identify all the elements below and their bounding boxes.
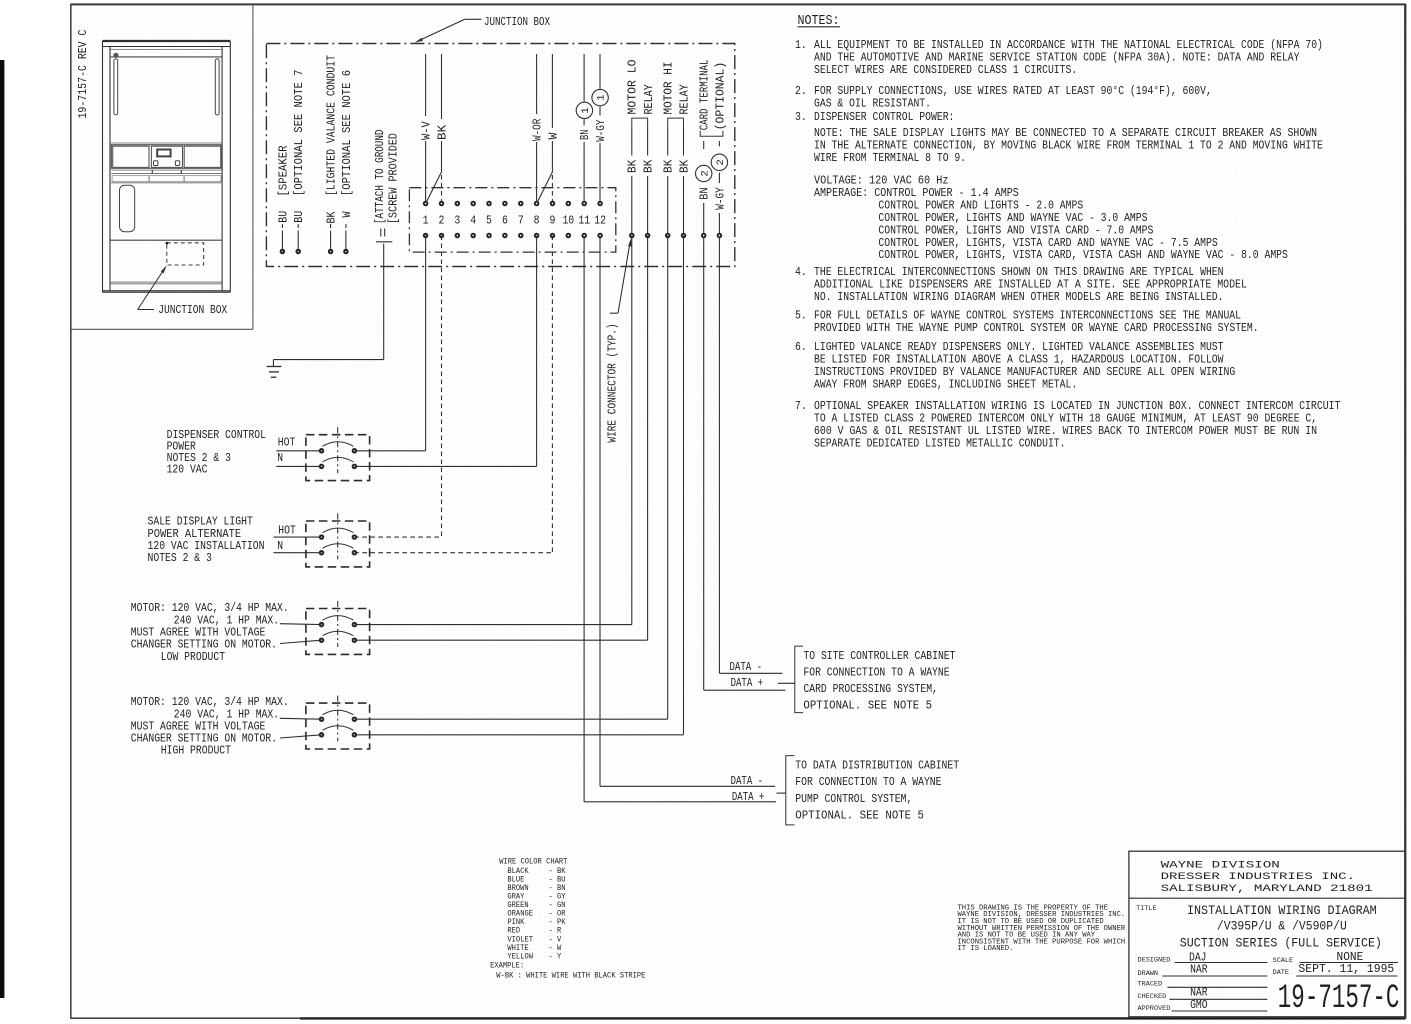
svg-text:2: 2 (699, 170, 711, 176)
S3 top leader (280, 623, 322, 626)
motor hi relay wire BK (2) (683, 125, 685, 155)
wire W diagonal into terminal 8 (537, 172, 552, 202)
svg-text:APPROVED: APPROVED (1138, 1005, 1171, 1013)
svg-text:BN: BN (698, 187, 712, 199)
junction box splice contact 5 (right group) (702, 234, 706, 238)
svg-text:WIRE FROM TERMINAL 8 TO 9.: WIRE FROM TERMINAL 8 TO 9. (814, 151, 966, 165)
earth ground symbol (267, 366, 282, 368)
svg-text:CARD TERMINAL: CARD TERMINAL (698, 60, 712, 131)
wire W-V to terminal 1 (425, 54, 427, 116)
dispenser base lines (110, 281, 222, 283)
dispenser control panel (111, 145, 221, 169)
motor high product switch S4 (306, 703, 370, 749)
svg-text:INSTALLATION WIRING DIAGRAM: INSTALLATION WIRING DIAGRAM (1187, 903, 1377, 918)
terminal strip TB (dash-dot border) (409, 188, 615, 252)
svg-text:DATA -: DATA - (730, 660, 763, 674)
svg-text:DESIGNED: DESIGNED (1138, 957, 1171, 965)
svg-text:6: 6 (502, 213, 508, 227)
terminal 7 bottom contact (519, 234, 523, 238)
dispenser cabinet outline (103, 41, 231, 292)
svg-text:DATE: DATE (1273, 969, 1289, 977)
svg-text:DATA +: DATA + (731, 676, 764, 690)
svg-text:SALISBURY, MARYLAND 21801: SALISBURY, MARYLAND 21801 (1161, 883, 1373, 895)
terminal 5 top contact (487, 202, 491, 206)
dispenser sub-frame panel (252, 5, 254, 330)
svg-text:TITLE: TITLE (1136, 905, 1157, 913)
svg-text:FOR CONNECTION TO A WAYNE: FOR CONNECTION TO A WAYNE (803, 665, 949, 679)
svg-text:BN: BN (578, 130, 592, 141)
junction box splice contact 6 (right group) (718, 234, 722, 238)
svg-text:SCALE: SCALE (1273, 957, 1294, 965)
junction box splice contact 4 (right group) (682, 234, 686, 238)
junction box top leader arrow (465, 18, 482, 20)
svg-text:HOT: HOT (278, 523, 296, 537)
svg-text:[OPTIONAL SEE NOTE 6: [OPTIONAL SEE NOTE 6 (340, 70, 354, 196)
svg-text:W-OR: W-OR (531, 119, 545, 141)
terminal 2 top contact (440, 202, 444, 206)
terminal 11 top contact (582, 202, 586, 206)
svg-text:10: 10 (562, 213, 574, 227)
terminal 6 top contact (503, 202, 507, 206)
svg-text:BK: BK (677, 159, 691, 173)
svg-text:[OPTIONAL SEE NOTE 7: [OPTIONAL SEE NOTE 7 (292, 70, 306, 197)
motor hi relay wire BK (1) (667, 125, 669, 155)
svg-text:[ATTACH TO GROUND: [ATTACH TO GROUND (373, 130, 387, 225)
svg-text:W-GY: W-GY (594, 119, 608, 142)
svg-text:RELAY: RELAY (642, 84, 656, 115)
svg-text:5.: 5. (795, 309, 807, 323)
terminal 11 bottom contact (582, 234, 586, 238)
svg-text:1: 1 (596, 94, 608, 100)
motor lo relay wire BK (2) (647, 125, 649, 155)
dispenser left display rod (114, 59, 118, 115)
speaker wire BU (2) (297, 231, 299, 252)
svg-text:BU: BU (292, 211, 306, 223)
terminal 8 bottom contact (535, 234, 539, 238)
svg-text:FOR CONNECTION TO A WAYNE: FOR CONNECTION TO A WAYNE (795, 775, 941, 789)
svg-text:DRESSER INDUSTRIES INC.: DRESSER INDUSTRIES INC. (1161, 871, 1356, 883)
svg-text:TO SITE CONTROLLER CABINET: TO SITE CONTROLLER CABINET (803, 649, 955, 663)
dispenser junction box (dashed) (167, 243, 204, 265)
svg-text:BK: BK (435, 124, 449, 140)
terminal 4 top contact (471, 202, 475, 206)
wire card terminal BN to site DATA + (703, 237, 705, 690)
terminal 4 bottom contact (471, 234, 475, 238)
ground screw symbol (380, 229, 382, 237)
svg-text:PUMP CONTROL SYSTEM,: PUMP CONTROL SYSTEM, (795, 792, 912, 806)
dispenser trim strip (111, 169, 221, 171)
svg-text:2: 2 (439, 213, 445, 227)
svg-text:4: 4 (470, 213, 476, 227)
terminal 10 bottom contact (567, 234, 571, 238)
wire S4 N to motor hi relay BK (354, 734, 683, 736)
junction box splice contact 3 (right group) (666, 234, 670, 238)
terminal 10 top contact (567, 202, 571, 206)
svg-text:WAYNE DIVISION: WAYNE DIVISION (1161, 859, 1280, 871)
svg-text:7: 7 (518, 213, 524, 227)
svg-text:W: W (340, 211, 354, 218)
motor hi relay bracket (668, 118, 684, 125)
dispenser right display rod (215, 59, 219, 115)
svg-text:MOTOR LO: MOTOR LO (626, 60, 640, 115)
svg-text:4.: 4. (795, 265, 807, 279)
dispenser panel buttons (154, 161, 158, 166)
svg-text:120 VAC: 120 VAC (167, 463, 208, 477)
svg-text:W-GY: W-GY (713, 187, 727, 210)
svg-text:(OPTIONAL): (OPTIONAL) (713, 62, 727, 131)
wire W-GY to terminal 12 with circled 1 (599, 54, 601, 89)
S4 top leader (280, 717, 322, 720)
svg-text:- Y: - Y (549, 951, 562, 961)
svg-text:1: 1 (423, 213, 429, 227)
svg-text:[SCREW PROVIDED: [SCREW PROVIDED (386, 133, 400, 224)
svg-text:CONTROL POWER, LIGHTS, VISTA C: CONTROL POWER, LIGHTS, VISTA CARD, VISTA… (878, 248, 1288, 262)
svg-text:CARD PROCESSING SYSTEM,: CARD PROCESSING SYSTEM, (803, 682, 938, 696)
svg-text:9: 9 (550, 213, 556, 227)
svg-text:3.: 3. (795, 110, 807, 124)
svg-text:19-7157-C: 19-7157-C (1278, 980, 1400, 1018)
svg-text:EXAMPLE:: EXAMPLE: (490, 961, 524, 971)
wire BN to terminal 11 with circled 1 (583, 54, 585, 102)
wire BK alternate dashed to terminal 2 (441, 175, 443, 201)
svg-text:W-BK : WHITE WIRE WITH BLACK S: W-BK : WHITE WIRE WITH BLACK STRIPE (496, 970, 645, 980)
svg-text:11: 11 (578, 213, 590, 227)
S4 bottom leader (280, 735, 322, 738)
terminal 1 top contact (424, 202, 428, 206)
svg-text:2: 2 (715, 159, 727, 165)
svg-text:JUNCTION BOX: JUNCTION BOX (158, 303, 228, 317)
ground wire from screw (383, 244, 385, 360)
svg-text:BK: BK (325, 211, 339, 224)
svg-text:1.: 1. (795, 38, 807, 52)
svg-text:HOT: HOT (278, 436, 296, 450)
svg-text:OPTIONAL. SEE NOTE 5: OPTIONAL. SEE NOTE 5 (795, 808, 924, 822)
terminal 2 bottom contact (440, 234, 444, 238)
dispenser nozzle boot (120, 185, 135, 232)
svg-text:OPTIONAL. SEE NOTE 5: OPTIONAL. SEE NOTE 5 (803, 699, 932, 713)
wire S1 HOT to terminal 1 (354, 450, 425, 452)
terminal 1 bottom contact (424, 234, 428, 238)
svg-text:DATA -: DATA - (731, 774, 764, 788)
S1 HOT stub wire (276, 450, 321, 452)
motor lo relay wire BK (1) (631, 125, 633, 155)
svg-text:JUNCTION BOX: JUNCTION BOX (484, 15, 551, 29)
sale display light switch S2 (alternate) (306, 521, 370, 567)
junction box splice contact 2 (right group) (646, 234, 650, 238)
svg-text:PROVIDED WITH THE WAYNE PUMP C: PROVIDED WITH THE WAYNE PUMP CONTROL SYS… (814, 321, 1259, 335)
S2 N stub wire (274, 552, 322, 554)
wire S3 HOT to motor lo relay BK (354, 624, 631, 626)
svg-text:LOW PRODUCT: LOW PRODUCT (161, 650, 225, 664)
svg-text:/V395P/U & /V590P/U: /V395P/U & /V590P/U (1217, 919, 1347, 934)
terminal 7 top contact (519, 202, 523, 206)
svg-text:3: 3 (454, 213, 460, 227)
svg-text:IT IS LOANED.: IT IS LOANED. (958, 945, 1014, 953)
S2 HOT stub wire (274, 536, 322, 538)
dispenser sign area bottom line (110, 142, 222, 144)
card terminal bracket (700, 131, 723, 136)
svg-text:SEPARATE DEDICATED LISTED META: SEPARATE DEDICATED LISTED METALLIC CONDU… (814, 436, 1066, 450)
junction box (dash-dot border) (266, 44, 734, 267)
svg-text:RELAY: RELAY (677, 84, 691, 115)
wire S1 N to terminal 8 (354, 465, 536, 467)
valance wire W (345, 231, 347, 252)
terminal 5 bottom contact (487, 234, 491, 238)
terminal 12 top contact (598, 202, 602, 206)
svg-text:NOTES 2 & 3: NOTES 2 & 3 (148, 551, 212, 565)
S1 N stub wire (276, 465, 321, 467)
site controller bracket (795, 646, 803, 713)
svg-text:NAR: NAR (1190, 962, 1208, 976)
terminal 12 bottom contact (598, 234, 602, 238)
wire S2 N dashed to terminal 9 (354, 552, 552, 554)
svg-text:CHECKED: CHECKED (1138, 993, 1167, 1001)
junction box splice contact 1 (right group) (630, 234, 634, 238)
svg-text:7.: 7. (795, 399, 807, 413)
scan artifact black bar at left edge (0, 60, 4, 998)
wire W-OR to terminal 8 (536, 54, 538, 114)
svg-text:WIRE CONNECTOR (TYP.): WIRE CONNECTOR (TYP.) (605, 323, 619, 442)
dispenser control power switch S1 (306, 435, 370, 481)
svg-text:BK: BK (626, 159, 640, 173)
card terminal wire W-GY with circled 2 (718, 141, 720, 146)
terminal 3 top contact (456, 202, 460, 206)
wire W to terminal 8 (with alternate dashed to terminal 9) (551, 54, 553, 128)
svg-text:SUCTION SERIES (FULL SERVICE): SUCTION SERIES (FULL SERVICE) (1180, 936, 1382, 951)
svg-text:TRACED: TRACED (1138, 981, 1163, 989)
dispenser display window (157, 150, 170, 157)
wire S3 N to motor lo relay BK (354, 639, 647, 641)
svg-text:1: 1 (580, 107, 592, 113)
junction box leader arrow (dispenser) (138, 309, 154, 311)
wire S2 HOT dashed to terminal 2 (354, 536, 441, 538)
wire terminal 11 BN to pump DATA + (583, 237, 585, 802)
terminal 3 bottom contact (456, 234, 460, 238)
svg-text:2.: 2. (795, 84, 807, 98)
svg-text:6.: 6. (795, 340, 807, 354)
svg-text:N: N (277, 539, 283, 553)
terminal 6 bottom contact (503, 234, 507, 238)
pump control bracket (786, 756, 795, 825)
dispenser valance strip (110, 48, 222, 50)
svg-text:BU: BU (276, 211, 290, 223)
svg-text:[LIGHTED VALANCE CONDUIT: [LIGHTED VALANCE CONDUIT (325, 55, 339, 196)
motor lo relay bracket (632, 118, 648, 125)
svg-text:GMO: GMO (1190, 998, 1208, 1012)
svg-text:BK: BK (662, 159, 676, 173)
svg-text:N: N (277, 451, 283, 465)
dispenser rod top screw (113, 53, 118, 58)
svg-text:DATA +: DATA + (732, 790, 765, 804)
svg-text:GAS & OIL RESISTANT.: GAS & OIL RESISTANT. (814, 97, 931, 111)
wire connector leader arrow (610, 312, 618, 314)
svg-text:HIGH PRODUCT: HIGH PRODUCT (161, 744, 231, 758)
page border heavy bottom-right edges (300, 1017, 1405, 1019)
svg-text:19-7157-C REV C: 19-7157-C REV C (76, 30, 90, 119)
svg-text:W: W (546, 132, 560, 140)
title block frame (1129, 851, 1406, 1017)
svg-text:NO. INSTALLATION WIRING DIAGRA: NO. INSTALLATION WIRING DIAGRAM WHEN OTH… (814, 290, 1224, 304)
wire terminal 12 W-GY to pump DATA - (599, 237, 601, 786)
S3 bottom leader (280, 640, 322, 643)
svg-text:12: 12 (594, 213, 606, 227)
svg-text:DISPENSER CONTROL POWER:: DISPENSER CONTROL POWER: (814, 110, 954, 124)
valance wire BK (330, 231, 332, 252)
svg-text:8: 8 (534, 213, 540, 227)
terminal 8 top contact (535, 202, 539, 206)
wire card terminal W-GY to site DATA - (718, 237, 720, 673)
wire BK diagonal into terminal 1 (426, 172, 441, 202)
svg-text:MOTOR HI: MOTOR HI (662, 62, 676, 115)
speaker wire BU (1) (281, 231, 283, 252)
svg-text:BK: BK (642, 159, 656, 173)
svg-text:AWAY FROM SHARP EDGES, INCLUDI: AWAY FROM SHARP EDGES, INCLUDING SHEET M… (814, 377, 1077, 391)
motor low product switch S3 (306, 609, 370, 655)
terminal 9 top contact (551, 202, 555, 206)
wire S4 HOT to motor hi relay BK (354, 718, 667, 720)
svg-text:W-V: W-V (420, 121, 434, 140)
svg-text:SEPT. 11, 1995: SEPT. 11, 1995 (1298, 962, 1394, 976)
card terminal wire BN with circled 2 (703, 141, 705, 149)
dispenser mid line (110, 239, 222, 241)
svg-text:SELECT WIRES ARE CONSIDERED CL: SELECT WIRES ARE CONSIDERED CLASS 1 CIRC… (814, 63, 1077, 77)
terminal 9 bottom contact (551, 234, 555, 238)
svg-text:DRAWN: DRAWN (1138, 970, 1159, 978)
svg-text:[SPEAKER: [SPEAKER (276, 146, 290, 197)
dispenser lower trim boxes (112, 176, 149, 182)
wire BK to terminal 1 (with alternate dashed to terminal 2) (441, 54, 443, 119)
svg-text:TO DATA DISTRIBUTION CABINET: TO DATA DISTRIBUTION CABINET (795, 759, 959, 773)
wire W alternate dashed to terminal 9 (551, 175, 553, 201)
svg-text:5: 5 (486, 213, 492, 227)
